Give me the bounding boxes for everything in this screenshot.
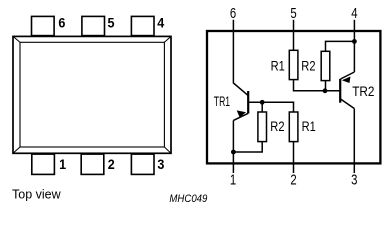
wire R2 lower top lead [261, 102, 263, 112]
wire pin 3 lead [353, 109, 355, 174]
junction dot TR1 emitter / R2 lower bottom [231, 150, 236, 155]
wire pin 2 lead [293, 142, 295, 173]
transistor TR2 emitter arrow [342, 77, 351, 84]
bevel diagonal top-left [13, 36, 20, 42]
svg-text:3: 3 [157, 156, 164, 172]
transistor TR1 base bar [247, 91, 249, 114]
svg-text:1: 1 [230, 171, 236, 188]
svg-text:6: 6 [58, 15, 65, 31]
svg-text:MHC049: MHC049 [169, 193, 207, 205]
svg-text:5: 5 [108, 15, 115, 31]
svg-text:R2: R2 [270, 118, 284, 134]
junction dot pin 4 [352, 39, 357, 44]
svg-text:4: 4 [157, 15, 164, 31]
schematic border box [207, 31, 380, 163]
pin 2 tab [81, 154, 104, 174]
resistor R1 upper [289, 50, 298, 79]
wire pin 6 lead [233, 20, 248, 96]
svg-text:TR1: TR1 [214, 94, 230, 109]
package inner body [20, 42, 164, 147]
bevel diagonal top-right [164, 36, 171, 42]
wire pin 4 lead [353, 20, 355, 72]
svg-text:R1: R1 [302, 118, 316, 134]
svg-text:5: 5 [290, 5, 296, 22]
pin 6 tab [32, 16, 55, 35]
pin 1 tab [32, 154, 55, 174]
transistor TR2 emitter [341, 72, 355, 79]
transistor TR2 base bar [339, 79, 341, 103]
svg-text:1: 1 [59, 156, 66, 172]
wire pin 5 lead [293, 20, 295, 51]
svg-text:2: 2 [108, 156, 115, 172]
junction dot R2 upper / TR2 base [323, 88, 328, 93]
wire TR1 base net [249, 102, 294, 112]
svg-text:2: 2 [290, 171, 296, 188]
resistor R2 lower [258, 112, 267, 142]
svg-text:R1: R1 [271, 57, 285, 73]
transistor TR1 emitter [233, 113, 248, 120]
package outer body [13, 36, 171, 153]
resistor R2 upper [321, 51, 330, 80]
svg-text:R2: R2 [301, 57, 315, 73]
wire R2 lower bottom lead [233, 142, 262, 152]
svg-text:6: 6 [230, 5, 236, 22]
pin 5 tab [82, 16, 105, 35]
pin 3 tab [131, 154, 154, 174]
pin 4 tab [131, 16, 154, 35]
wire R1 upper bottom lead [294, 80, 340, 91]
transistor TR1 emitter arrow [237, 110, 246, 117]
bevel diagonal bottom-left [13, 147, 20, 153]
svg-text:TR2: TR2 [352, 84, 374, 99]
wire R2 upper bottom lead [325, 81, 327, 91]
junction dot TR1 base / R2 lower [260, 100, 265, 105]
svg-text:3: 3 [351, 171, 357, 188]
bevel diagonal bottom-right [164, 147, 171, 153]
wire R2 upper top lead [326, 41, 355, 51]
transistor TR2 collector [341, 99, 355, 109]
svg-text:4: 4 [351, 5, 357, 22]
wire pin 1 lead [232, 120, 234, 173]
svg-text:Top view: Top view [12, 187, 62, 201]
resistor R1 lower [289, 112, 298, 142]
